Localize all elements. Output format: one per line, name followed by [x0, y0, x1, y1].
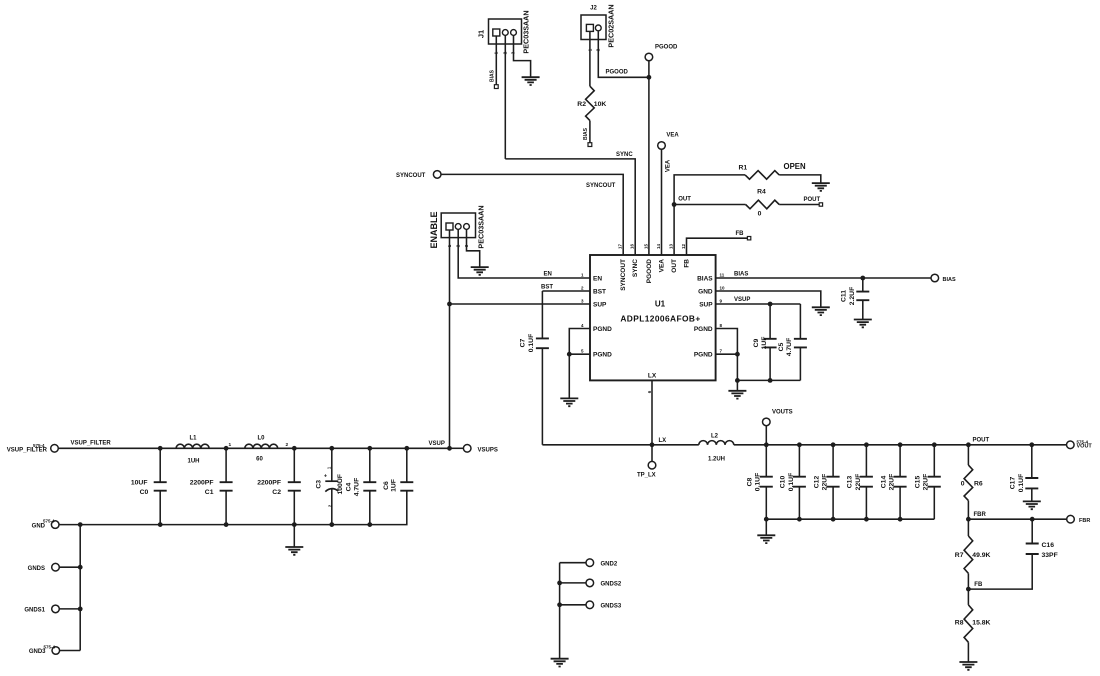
terminal PGOOD	[645, 53, 653, 77]
svg-text:J2: J2	[590, 6, 597, 12]
inductor L0	[245, 444, 278, 448]
svg-text:GND3: GND3	[29, 649, 46, 655]
U1 top pin numbers (rotated)	[618, 243, 686, 249]
resistor R4	[746, 200, 780, 209]
label C12 22UF	[813, 474, 828, 491]
svg-text:EN: EN	[593, 275, 602, 282]
svg-text:1: 1	[327, 466, 332, 469]
svg-text:0.1UF: 0.1UF	[528, 334, 535, 353]
svg-text:22UF: 22UF	[889, 474, 896, 491]
capacitor C14	[894, 445, 907, 519]
svg-text:22UF: 22UF	[923, 474, 930, 491]
junction C4 bottom	[367, 522, 372, 527]
label L1 value 1UH	[187, 458, 199, 464]
U1 right pin names	[694, 275, 713, 358]
wire J1 pin3 to ground	[514, 35, 531, 77]
wire C9 C5 bottom rail	[737, 379, 800, 381]
resistor R7	[964, 519, 973, 589]
svg-text:VOUTS: VOUTS	[772, 409, 793, 415]
U1 bottom pin number 6	[647, 390, 652, 393]
svg-text:C13: C13	[847, 476, 854, 489]
wire SYNC	[505, 159, 635, 255]
svg-text:5: 5	[581, 349, 584, 354]
junction C0 top	[158, 446, 163, 451]
capacitor C0	[154, 448, 167, 524]
junction C14 bottom	[898, 517, 903, 522]
junction VSUP at C9	[768, 302, 773, 307]
terminal GND2	[560, 559, 594, 567]
wire BST	[542, 290, 590, 292]
svg-text:OUT: OUT	[678, 197, 691, 203]
svg-text:4.7UF: 4.7UF	[353, 478, 360, 497]
svg-text:R7: R7	[955, 552, 964, 559]
capacitor C7	[536, 291, 549, 445]
U1 right pin numbers	[720, 272, 726, 353]
svg-text:BIAS: BIAS	[943, 277, 956, 283]
label FBR net	[974, 512, 987, 518]
label L2	[711, 433, 719, 439]
svg-text:C15: C15	[915, 476, 922, 489]
svg-text:BIAS: BIAS	[489, 69, 495, 82]
junction PGOOD	[647, 75, 652, 80]
terminal VOUTS	[763, 418, 771, 445]
label C3	[316, 480, 323, 489]
terminal FB	[747, 237, 750, 240]
wire PGND right to ground	[736, 380, 738, 390]
wire R6 to FBR	[967, 501, 969, 520]
wire FBR to terminal	[968, 518, 1066, 520]
wire U1 PGND pins 4-5 left	[569, 329, 590, 399]
svg-text:U1: U1	[655, 300, 666, 309]
label C0 10UF	[131, 480, 149, 496]
label J2	[590, 6, 597, 12]
label L0 value 60	[256, 456, 263, 462]
U1 top pin names (rotated)	[620, 259, 690, 291]
ground at input filter	[285, 547, 303, 555]
svg-text:C6: C6	[383, 481, 390, 490]
ground at C17	[1023, 501, 1041, 509]
capacitor C3 (polarized)	[325, 448, 338, 524]
terminal FBR	[1067, 515, 1075, 523]
ground at ENABLE	[471, 267, 489, 275]
svg-text:SYNCOUT: SYNCOUT	[586, 183, 616, 189]
svg-text:LX: LX	[659, 438, 667, 444]
junction C1 top	[224, 446, 229, 451]
label PGOOD terminal	[655, 45, 678, 51]
label R4	[757, 189, 766, 196]
U1 left pin names	[593, 275, 612, 358]
svg-text:VSUP_FILTER: VSUP_FILTER	[7, 447, 48, 453]
svg-text:PGND: PGND	[593, 326, 612, 333]
junction C10 top	[797, 442, 802, 447]
label R2 10K	[577, 101, 606, 108]
label LX net	[659, 438, 667, 444]
label EN	[544, 272, 552, 278]
label VSUP_FILTER terminal	[7, 443, 48, 453]
svg-text:4.7UF: 4.7UF	[786, 338, 793, 357]
junction GNDS2	[557, 581, 562, 586]
svg-text:FB: FB	[736, 231, 745, 237]
svg-text:10: 10	[720, 285, 726, 290]
junction PGND right pin7	[735, 352, 740, 357]
resistor R8	[964, 589, 973, 662]
resistor R1	[745, 171, 779, 180]
pin numbers J1	[494, 51, 516, 54]
svg-text:8: 8	[720, 323, 723, 328]
svg-text:15: 15	[643, 243, 648, 249]
svg-text:ENABLE: ENABLE	[429, 211, 439, 248]
terminal GNDS3	[560, 601, 594, 609]
svg-text:22UF: 22UF	[822, 474, 829, 491]
polarity mark of C3	[324, 466, 333, 507]
svg-text:C2: C2	[272, 489, 281, 496]
terminal TP_LX	[648, 461, 656, 469]
wire VSUP pin9	[716, 303, 801, 305]
svg-text:BST: BST	[541, 285, 553, 291]
svg-text:11: 11	[720, 272, 725, 277]
connector J1 (PEC03SAAN)	[489, 19, 522, 44]
junction SUP at ENABLE pin1	[447, 302, 452, 307]
svg-text:C5: C5	[778, 342, 785, 351]
svg-text:C1: C1	[205, 489, 214, 496]
svg-text:R2: R2	[577, 101, 586, 108]
junction C2 top	[292, 446, 297, 451]
svg-text:C17: C17	[1010, 477, 1017, 490]
wire R4 to POUT terminal	[779, 204, 819, 206]
svg-text:SYNC: SYNC	[632, 259, 639, 277]
label VSUP_FILTER net	[71, 441, 112, 447]
svg-text:SYNCOUT: SYNCOUT	[396, 173, 426, 179]
capacitor C11	[856, 278, 869, 320]
label R6	[974, 481, 983, 488]
label C5 4.7UF	[778, 338, 793, 357]
ground at GND2 column	[551, 659, 569, 667]
capacitor C12	[827, 445, 840, 519]
pin number 2 of L0	[286, 442, 289, 448]
label R8	[955, 620, 964, 627]
terminal SYNCOUT	[433, 171, 441, 179]
label C4 4.7UF	[346, 478, 361, 497]
svg-text:C16: C16	[1042, 542, 1055, 549]
label GND2	[601, 562, 618, 568]
label VEA terminal	[666, 133, 679, 139]
label BIAS net	[734, 272, 748, 278]
svg-text:FB: FB	[974, 582, 983, 588]
junction GNDS	[78, 565, 83, 570]
label VSUP net at pin9	[734, 297, 750, 303]
svg-text:575-4: 575-4	[33, 443, 45, 448]
terminal BIAS right	[931, 274, 939, 282]
svg-text:100UF: 100UF	[337, 474, 344, 494]
svg-text:SYNC: SYNC	[616, 152, 633, 158]
svg-text:PGOOD: PGOOD	[646, 259, 653, 284]
connector ENABLE (PEC03SAAN)	[441, 213, 475, 238]
junction VSUP rail	[447, 446, 452, 451]
terminal POUT	[819, 203, 822, 206]
junction POUT at R6	[966, 442, 971, 447]
svg-text:C9: C9	[753, 338, 760, 347]
junction C4 top	[367, 446, 372, 451]
capacitor C15	[928, 445, 941, 519]
terminal BIAS below R2	[583, 127, 592, 146]
junction BIAS at C11	[860, 276, 865, 281]
svg-text:FBR: FBR	[974, 512, 987, 518]
svg-text:C12: C12	[813, 476, 820, 489]
capacitor C4	[363, 448, 376, 524]
label R4 value 0	[758, 211, 762, 218]
svg-text:49.9K: 49.9K	[972, 552, 990, 559]
svg-text:GNDS3: GNDS3	[601, 604, 622, 610]
svg-text:1UF: 1UF	[761, 337, 768, 350]
label C17 0.1UF	[1010, 474, 1026, 493]
label VSUPS	[478, 447, 498, 453]
svg-text:R4: R4	[757, 189, 766, 196]
svg-text:0.1UF: 0.1UF	[1018, 474, 1025, 493]
svg-text:L2: L2	[711, 433, 719, 439]
label VSUP net	[429, 441, 445, 447]
svg-text:1: 1	[229, 442, 232, 448]
svg-text:12: 12	[681, 243, 686, 249]
svg-text:+: +	[324, 474, 327, 480]
label R8 value 15.8K	[972, 620, 990, 627]
terminal GNDS	[52, 563, 80, 571]
resistor R2	[586, 86, 595, 120]
svg-text:PGND: PGND	[694, 326, 713, 333]
svg-text:7: 7	[720, 349, 723, 354]
junction GNDS3	[557, 602, 562, 607]
label C11 2.2UF	[841, 287, 857, 306]
svg-text:BIAS: BIAS	[583, 127, 589, 140]
svg-text:C14: C14	[880, 476, 887, 489]
label C9 1UF	[753, 337, 768, 350]
label C6 1UF	[383, 479, 398, 492]
junction C12 top	[831, 442, 836, 447]
wire J2 pin1 to R2	[589, 31, 591, 86]
label VOUT terminal	[1077, 439, 1093, 449]
svg-text:3: 3	[581, 298, 584, 303]
svg-text:GND: GND	[32, 523, 46, 529]
IC U1 ADPL12006AFOB+ body	[590, 255, 716, 380]
wire GND2 column	[559, 563, 561, 659]
label VEA net (rotated)	[666, 159, 672, 172]
svg-text:PEC03SAAN: PEC03SAAN	[522, 10, 531, 53]
svg-text:C10: C10	[780, 476, 787, 489]
label C16 33PF	[1042, 542, 1058, 559]
label C14 22UF	[880, 474, 895, 491]
svg-text:PGND: PGND	[593, 352, 612, 359]
junction C0 bottom	[158, 522, 163, 527]
capacitor C1	[220, 448, 233, 524]
svg-text:0.1UF: 0.1UF	[755, 473, 762, 492]
wire OUT node	[674, 175, 745, 255]
svg-text:GND2: GND2	[601, 562, 618, 568]
junction POUT at C17	[1029, 442, 1034, 447]
svg-text:VEA: VEA	[666, 159, 672, 172]
ground at C11	[854, 320, 872, 328]
svg-text:33PF: 33PF	[1042, 552, 1058, 559]
svg-text:C7: C7	[520, 338, 527, 347]
junction PGND left	[567, 352, 572, 357]
label C1 2200PF	[190, 480, 214, 496]
capacitor C6	[400, 448, 413, 490]
label FB net	[736, 231, 745, 237]
svg-text:4: 4	[581, 323, 584, 328]
wire PGOOD to U1 pin 15	[648, 77, 650, 255]
svg-text:C8: C8	[747, 477, 754, 486]
ground at PGND right	[728, 391, 746, 399]
label VOUTS	[772, 409, 793, 415]
label GNDS1	[24, 608, 45, 614]
svg-text:BST: BST	[593, 288, 606, 295]
wire J2 pin2 to PGOOD node	[598, 31, 649, 77]
svg-text:VSUP: VSUP	[734, 297, 750, 303]
label PEC03SAAN of ENABLE	[477, 205, 486, 248]
ground at R8	[959, 662, 977, 670]
svg-text:EN: EN	[544, 272, 552, 278]
capacitor C13	[860, 445, 873, 519]
svg-text:575-4: 575-4	[43, 519, 55, 524]
label L2 value 1.2UH	[708, 456, 725, 462]
wire U1 LX pin 6	[651, 380, 653, 444]
svg-text:VSUPS: VSUPS	[478, 447, 498, 453]
terminal VSUPS	[463, 445, 471, 453]
svg-text:16: 16	[630, 243, 635, 249]
svg-text:POUT: POUT	[973, 438, 990, 444]
capacitor C16	[1026, 519, 1039, 554]
pin numbers J2	[588, 48, 601, 51]
svg-text:2200PF: 2200PF	[257, 480, 281, 487]
svg-text:PGND: PGND	[694, 352, 713, 359]
junction FB	[966, 587, 971, 592]
wire to VSUPS terminal	[450, 447, 464, 449]
wire U1 PGND pins 8-7 right	[716, 329, 738, 381]
wire GND rail	[59, 491, 407, 525]
wire TP_LX stub	[651, 445, 653, 462]
svg-text:R6: R6	[974, 481, 983, 488]
label SYNCOUT net	[586, 183, 616, 189]
svg-text:575-4: 575-4	[44, 644, 56, 649]
label L1	[189, 435, 197, 441]
junction C13 top	[864, 442, 869, 447]
label FB node	[974, 582, 983, 588]
svg-text:15.8K: 15.8K	[972, 620, 990, 627]
wire VEA to U1 pin 14	[661, 149, 663, 255]
terminal VOUT	[1067, 441, 1075, 449]
connector J2 (PEC02SAAN)	[581, 15, 606, 40]
wire SUP to U1	[450, 303, 591, 305]
wire J1 pin1 to BIAS terminal	[495, 36, 497, 85]
svg-text:PGOOD: PGOOD	[655, 45, 678, 51]
svg-text:60: 60	[256, 456, 263, 462]
junction GNDS1	[78, 607, 83, 612]
svg-text:GNDS1: GNDS1	[24, 608, 45, 614]
wire GNDS column	[79, 525, 81, 651]
svg-text:C11: C11	[841, 290, 848, 302]
svg-text:TP_LX: TP_LX	[637, 473, 656, 479]
junction C9 bottom	[768, 378, 773, 383]
pin numbers ENABLE	[447, 244, 469, 247]
junction LX	[650, 442, 655, 447]
terminal GND	[51, 521, 59, 529]
svg-text:6: 6	[647, 390, 652, 393]
junction C3 top	[329, 446, 334, 451]
svg-text:PEC02SAAN: PEC02SAAN	[607, 4, 616, 47]
label FBR terminal	[1079, 518, 1090, 524]
wire FB from U1 pin 12	[687, 238, 748, 255]
svg-text:C4: C4	[346, 482, 353, 491]
junction C2 bottom	[292, 522, 297, 527]
wire R2 to BIAS terminal	[589, 121, 591, 143]
svg-text:2: 2	[581, 285, 584, 290]
label SYNCOUT terminal	[396, 173, 426, 179]
wire POUT rail	[734, 444, 1067, 446]
capacitor C5	[794, 304, 807, 380]
junction C15 top	[932, 442, 937, 447]
ground at PGND left	[560, 398, 578, 406]
svg-text:2200PF: 2200PF	[190, 480, 214, 487]
svg-text:PGOOD: PGOOD	[606, 70, 629, 76]
junction C12 bottom	[831, 517, 836, 522]
wire POUT to R6	[967, 445, 969, 465]
label C7 0.1UF	[520, 334, 536, 353]
terminal VSUP_FILTER	[51, 445, 59, 453]
svg-text:BIAS: BIAS	[697, 275, 713, 282]
svg-text:SYNCOUT: SYNCOUT	[620, 259, 627, 291]
label GNDS3	[601, 604, 622, 610]
label TP_LX	[637, 473, 656, 479]
wire ENABLE pin2 to EN	[458, 229, 590, 278]
svg-text:L0: L0	[257, 435, 265, 441]
label GND terminal	[32, 519, 55, 530]
svg-text:10K: 10K	[594, 101, 607, 108]
svg-text:GND: GND	[698, 288, 713, 295]
label OPEN	[784, 162, 806, 171]
svg-text:GNDS2: GNDS2	[601, 582, 622, 588]
wire output caps ground rail	[766, 518, 934, 520]
svg-text:FBR: FBR	[1079, 518, 1090, 524]
label BST	[541, 285, 553, 291]
svg-text:17: 17	[618, 243, 623, 249]
junction C8 top	[764, 442, 769, 447]
junction C3 bottom	[329, 522, 334, 527]
junction C10 bottom	[797, 517, 802, 522]
wire BIAS net	[716, 277, 931, 279]
wire R4 from OUT	[674, 204, 746, 206]
ground at U1 GND pin	[812, 307, 830, 315]
junction C14 top	[898, 442, 903, 447]
junction FBR	[966, 517, 971, 522]
svg-text:OPEN: OPEN	[784, 162, 806, 171]
terminal GNDS2	[560, 579, 594, 587]
svg-text:1: 1	[581, 272, 584, 277]
svg-text:GNDS: GNDS	[28, 566, 45, 572]
label U1	[655, 300, 666, 309]
junction C8 bottom	[764, 517, 769, 522]
label POUT net	[973, 438, 990, 444]
resistor R6	[964, 465, 973, 501]
label C13 22UF	[847, 474, 862, 491]
label PEC03SAAN of J1	[522, 10, 531, 53]
terminal VEA	[658, 142, 666, 150]
svg-text:VOUT: VOUT	[1077, 444, 1093, 450]
svg-text:R1: R1	[739, 164, 748, 171]
terminal BIAS at J1 pin1	[489, 69, 498, 88]
label C8 0.1UF	[747, 473, 762, 492]
svg-text:POUT: POUT	[804, 197, 821, 203]
label R1	[739, 164, 748, 171]
label C2 2200PF	[257, 480, 281, 496]
svg-text:C3: C3	[316, 480, 323, 489]
